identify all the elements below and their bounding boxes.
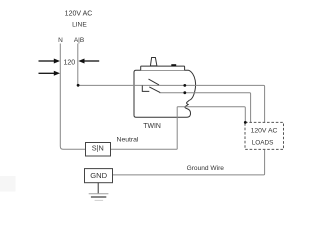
svg-text:N: N (58, 37, 63, 44)
svg-text:S|N: S|N (92, 143, 104, 152)
svg-text:120: 120 (63, 59, 75, 66)
svg-text:A|B: A|B (74, 37, 84, 44)
svg-text:120V AC: 120V AC (251, 127, 278, 134)
svg-text:120V AC: 120V AC (65, 11, 93, 18)
svg-text:TWIN: TWIN (143, 123, 161, 130)
svg-text:Neutral: Neutral (117, 136, 139, 143)
svg-text:Ground Wire: Ground Wire (187, 165, 225, 172)
svg-text:LINE: LINE (72, 22, 87, 29)
svg-text:GND: GND (90, 171, 107, 180)
svg-text:LOADS: LOADS (252, 139, 274, 146)
